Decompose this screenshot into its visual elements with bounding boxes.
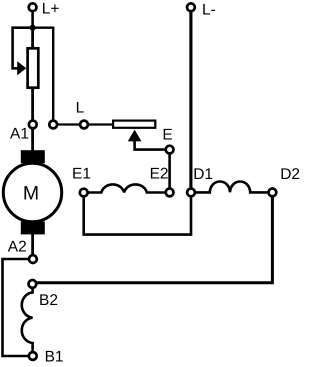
svg-text:B1: B1	[45, 348, 64, 365]
svg-text:A2: A2	[8, 238, 27, 255]
svg-text:L: L	[76, 100, 85, 117]
svg-text:D2: D2	[280, 166, 300, 183]
svg-text:B2: B2	[39, 292, 58, 309]
svg-text:E2: E2	[150, 166, 169, 183]
svg-text:A1: A1	[10, 125, 29, 142]
svg-text:L-: L-	[202, 1, 216, 18]
svg-text:D1: D1	[193, 166, 213, 183]
svg-text:E1: E1	[72, 166, 91, 183]
svg-text:L+: L+	[42, 1, 60, 18]
svg-text:M: M	[23, 182, 39, 204]
svg-text:E: E	[162, 127, 172, 144]
